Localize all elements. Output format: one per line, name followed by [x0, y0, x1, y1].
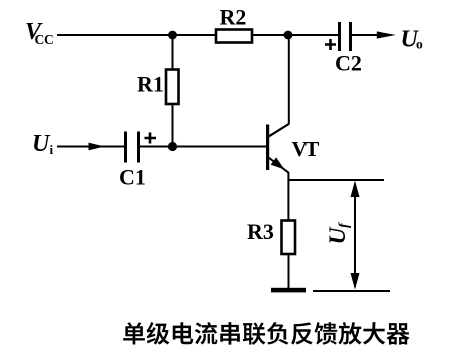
arrow input [89, 143, 105, 151]
wire emitter down to node [287, 172, 289, 180]
resistor R1 [166, 70, 179, 105]
transistor VT emitter arrow [271, 157, 285, 169]
wire Uf arrow shaft [354, 184, 356, 287]
transistor VT collector diagonal [269, 124, 289, 137]
arrow output [377, 31, 396, 38]
svg-text:R3: R3 [247, 219, 274, 244]
node junction dot at VCC/collector [284, 31, 293, 40]
arrow Uf top head [351, 181, 360, 198]
svg-text:R2: R2 [220, 5, 247, 30]
transistor VT base bar [266, 125, 269, 171]
svg-text:U: U [32, 131, 51, 157]
wire bottom reference line [313, 290, 390, 292]
wire VCC junction down to R1 [172, 35, 174, 69]
wire input to C1 [57, 146, 124, 148]
svg-text:U: U [325, 227, 351, 245]
node junction dot input/R1 [168, 142, 177, 151]
wire C2 to output arrow [352, 34, 383, 36]
svg-text:i: i [50, 142, 54, 157]
arrow Uf bottom head [351, 273, 360, 290]
node junction dot at VCC/R1 [168, 31, 177, 40]
wire VCC rail right segment [252, 34, 339, 36]
svg-text:o: o [416, 37, 423, 52]
ground [271, 288, 306, 293]
svg-text:VT: VT [292, 137, 321, 161]
wire R3 to ground [288, 254, 290, 288]
wire VCC rail left segment [57, 34, 215, 36]
wire emitter horizontal reference line [288, 179, 384, 181]
capacitor C2 plus sign [325, 39, 336, 50]
svg-text:C2: C2 [335, 51, 362, 76]
capacitor C2 [340, 22, 351, 51]
capacitor C1 [126, 132, 139, 163]
resistor R3 [282, 221, 296, 255]
wire C1 to base [140, 146, 267, 148]
transistor VT emitter diagonal [269, 158, 289, 173]
svg-text:C1: C1 [119, 165, 146, 190]
node Uf label (rotated) [325, 222, 352, 245]
svg-text:R1: R1 [137, 72, 164, 97]
svg-text:CC: CC [35, 32, 54, 47]
capacitor C1 plus sign [145, 133, 157, 144]
wire collector up to VCC [288, 35, 290, 125]
wire R1 to input node [172, 104, 174, 147]
caption 单级电流串联负反馈放大器 [123, 322, 409, 345]
resistor R2 [216, 30, 252, 43]
wire emitter node down to R3 [287, 180, 289, 220]
